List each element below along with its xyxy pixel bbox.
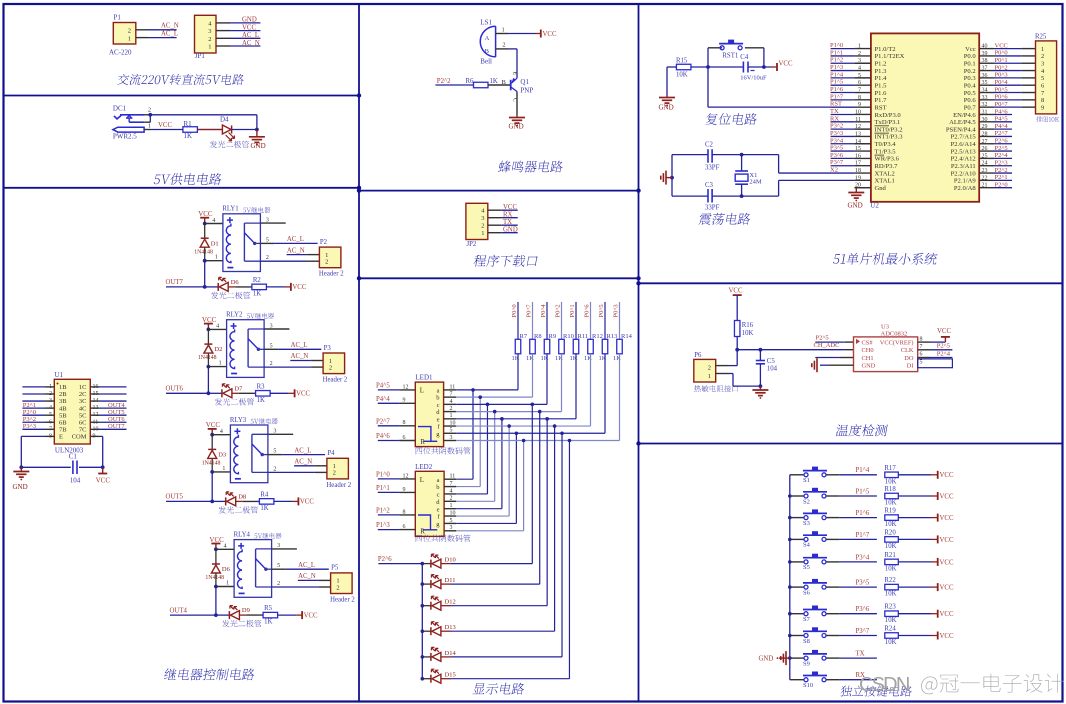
wire U2 pin 37 P0^2 — [979, 64, 1035, 71]
svg-text:S10: S10 — [803, 682, 813, 689]
svg-text:P0^5: P0^5 — [598, 304, 605, 317]
wire P0^5 vertical — [604, 302, 606, 339]
wire JP2 GND — [488, 226, 518, 233]
wire U2 pin 31 P4^6 — [979, 108, 1012, 115]
resistor R16 10K — [734, 321, 753, 337]
node crystal bottom junction — [740, 194, 744, 198]
relay RLY3 5V — [220, 417, 278, 483]
pushbutton S1 — [790, 467, 827, 485]
svg-text:9: 9 — [403, 487, 406, 493]
svg-text:P0^5: P0^5 — [995, 86, 1008, 93]
wire AC_N to P5 pin 1 — [298, 573, 331, 580]
svg-text:P1^6: P1^6 — [856, 510, 870, 517]
svg-text:AC_N: AC_N — [287, 247, 305, 254]
wire LED1 to LED2 segment 5 — [456, 419, 502, 509]
svg-text:OUT4: OUT4 — [170, 607, 188, 614]
svg-text:R17: R17 — [884, 465, 896, 472]
svg-text:10K: 10K — [885, 565, 897, 572]
svg-text:GND: GND — [659, 104, 674, 112]
svg-text:GND: GND — [848, 202, 863, 210]
svg-text:31: 31 — [982, 109, 988, 115]
wire LED2 pin 4 stub — [444, 488, 456, 494]
wire U2 pin 17 — [830, 159, 871, 167]
svg-text:104: 104 — [767, 365, 778, 372]
svg-text:3: 3 — [208, 28, 211, 35]
wire R22 to VCC — [898, 583, 954, 591]
resistor R9 1K — [541, 333, 557, 362]
watermark CSDN — [859, 674, 1064, 697]
svg-text:AC_L: AC_L — [298, 562, 315, 569]
svg-text:R8: R8 — [534, 333, 542, 340]
node label P2^6 — [378, 556, 422, 564]
resistor R6 1K — [466, 78, 498, 88]
svg-text:P2^2: P2^2 — [437, 78, 451, 85]
wire U2 pin 22 P2^1 — [979, 174, 1012, 181]
svg-text:3: 3 — [450, 525, 453, 531]
wire LED2 pin 2 stub — [444, 496, 456, 502]
svg-text:4B: 4B — [59, 405, 67, 412]
wire RLY1 pin 3 stub — [260, 222, 285, 224]
svg-text:PSEN/P4.4: PSEN/P4.4 — [946, 126, 977, 133]
node bus junction S5 — [788, 560, 792, 564]
wire D10 riser — [451, 404, 532, 563]
LED D15 — [422, 669, 455, 683]
svg-text:5: 5 — [1041, 75, 1044, 82]
svg-text:S5: S5 — [803, 564, 810, 571]
title reset — [705, 113, 758, 125]
svg-text:P4^4: P4^4 — [376, 396, 390, 403]
svg-text:P0^6: P0^6 — [583, 304, 590, 318]
svg-text:1: 1 — [481, 230, 484, 237]
svg-text:2: 2 — [325, 259, 328, 266]
resistor R22 10K — [884, 577, 898, 598]
wire LED1 to LED2 segment 7 — [456, 433, 516, 523]
connector P3 Header 2 — [323, 345, 348, 384]
svg-text:4: 4 — [224, 544, 227, 550]
svg-text:P2^6: P2^6 — [995, 138, 1009, 145]
resistor R1 1K — [183, 120, 198, 140]
wire U2 pin 13 — [830, 130, 871, 138]
svg-text:P3^2: P3^2 — [23, 416, 36, 423]
svg-text:P1.2: P1.2 — [875, 61, 887, 68]
svg-text:10K: 10K — [885, 543, 897, 550]
svg-text:P2^2: P2^2 — [995, 167, 1008, 174]
wire R12 to LED1 row 6 — [456, 354, 590, 426]
wire LED2 pin 7 stub — [444, 481, 456, 487]
wire JP2 VCC — [488, 204, 518, 211]
svg-text:2: 2 — [1041, 53, 1044, 60]
svg-text:P3^3: P3^3 — [23, 423, 36, 430]
wire LED2 pin 3 stub — [444, 525, 456, 531]
pushbutton S9 — [790, 650, 827, 668]
power symbol VCC (U1) — [96, 467, 111, 484]
node bus junction D12 — [421, 604, 425, 608]
node label P2^2 — [435, 78, 473, 85]
wire U2 pin 10 — [830, 108, 871, 116]
power symbol VCC (RLY1) — [198, 210, 213, 224]
svg-text:P2^1: P2^1 — [995, 174, 1008, 181]
node osc gnd junction — [670, 176, 674, 180]
svg-text:P1^7: P1^7 — [830, 93, 844, 100]
svg-text:CH1: CH1 — [862, 355, 874, 362]
diode D6 1N4148 — [205, 549, 230, 586]
wire R11 to LED1 row 5 — [456, 354, 576, 419]
ground symbol GND (temp) — [752, 386, 768, 399]
svg-text:OUT5: OUT5 — [108, 409, 125, 416]
svg-text:10K: 10K — [885, 500, 897, 507]
svg-text:P0.4: P0.4 — [964, 83, 977, 90]
pushbutton S8 — [790, 627, 827, 645]
svg-text:5: 5 — [277, 563, 280, 569]
node junction row 6 — [507, 424, 511, 428]
wire JP1 AC_L — [216, 32, 260, 39]
svg-text:P0.6: P0.6 — [964, 97, 977, 104]
svg-text:VCC(VREF): VCC(VREF) — [880, 339, 914, 346]
node bus junction D14 — [421, 655, 425, 659]
svg-text:1K: 1K — [184, 132, 193, 140]
svg-text:2: 2 — [450, 496, 453, 502]
svg-text:3B: 3B — [59, 398, 67, 405]
svg-text:b: b — [436, 395, 439, 402]
wire R3 to VCC — [270, 389, 310, 397]
node junction row 1 — [471, 388, 475, 392]
wire LED2 pin 11 stub — [444, 474, 456, 480]
node bus junction D15 — [421, 677, 425, 681]
node C4-RST1 junction — [762, 65, 766, 69]
svg-text:T1/P3.5: T1/P3.5 — [875, 148, 897, 155]
svg-text:40: 40 — [982, 44, 988, 50]
svg-text:VCC: VCC — [940, 585, 954, 592]
svg-text:Vcc: Vcc — [965, 46, 976, 53]
svg-text:R14: R14 — [621, 333, 633, 340]
svg-text:VCC: VCC — [729, 288, 743, 295]
svg-text:3: 3 — [450, 435, 453, 441]
node junction row 2 — [478, 395, 482, 399]
svg-text:VCC: VCC — [937, 328, 951, 335]
svg-text:VCC: VCC — [940, 611, 954, 618]
wire DC1 top to LED cathode rail — [150, 115, 257, 130]
svg-text:U2: U2 — [870, 202, 879, 210]
wire U2 pin 6 — [830, 79, 871, 87]
svg-text:DI: DI — [907, 363, 914, 370]
diode D1 1N4148 — [194, 224, 218, 261]
svg-text:Header 2: Header 2 — [319, 271, 344, 278]
wire RLY4 pin 3 stub — [272, 548, 297, 550]
svg-text:24M: 24M — [749, 178, 762, 185]
wire RLY2 pin 3 stub — [264, 328, 289, 330]
wire LED1 pin 7 stub — [444, 392, 457, 398]
wire U1 pin 13 — [90, 407, 126, 409]
resistor R10 1K — [555, 333, 574, 362]
wire D11 riser — [451, 412, 540, 585]
svg-text:5: 5 — [858, 73, 861, 79]
svg-text:6C: 6C — [79, 419, 87, 426]
svg-text:2B: 2B — [59, 391, 67, 398]
resistor R12 1K — [584, 333, 603, 362]
node junction row 5 — [500, 417, 504, 421]
svg-text:PNP: PNP — [520, 86, 533, 94]
wire U3 pin8 to VCC — [918, 328, 952, 342]
wire U2 pin 4 — [830, 64, 871, 72]
svg-text:LED1: LED1 — [415, 374, 433, 382]
resistor R15 10K — [676, 57, 691, 78]
svg-text:D7: D7 — [234, 385, 243, 392]
connector P2 Header 2 — [319, 239, 344, 278]
svg-text:17: 17 — [855, 161, 861, 167]
wire R13 to LED1 row 7 — [456, 354, 605, 433]
svg-text:2: 2 — [266, 255, 269, 261]
svg-text:P1^4: P1^4 — [856, 467, 870, 474]
LED D13 — [422, 622, 455, 636]
svg-text:P0^4: P0^4 — [995, 79, 1009, 86]
wire U2 pin 9 — [830, 101, 871, 109]
svg-text:1K: 1K — [264, 619, 272, 626]
svg-text:4: 4 — [858, 66, 861, 72]
svg-text:10K: 10K — [676, 72, 688, 79]
svg-text:11: 11 — [855, 117, 861, 123]
svg-text:P2^7: P2^7 — [995, 130, 1009, 137]
svg-text:P1^3: P1^3 — [376, 522, 390, 529]
node bus junction S9 — [788, 656, 792, 660]
wire VCC to RLY3 pin 4 — [212, 434, 230, 436]
svg-text:R24: R24 — [884, 626, 896, 633]
svg-text:1K: 1K — [257, 397, 265, 404]
svg-text:JP1: JP1 — [195, 52, 206, 60]
svg-text:Header 2: Header 2 — [323, 377, 348, 384]
wire junction to LED D7 — [208, 392, 222, 394]
wire RLY1 pin 1 — [205, 260, 223, 262]
wire OUT4 net — [170, 587, 216, 616]
svg-text:P0^3: P0^3 — [612, 304, 619, 317]
node C5 top junction — [759, 348, 763, 352]
svg-text:32: 32 — [982, 102, 988, 108]
resistor R21 10K — [884, 552, 898, 573]
wire U1 E pin to GND — [21, 436, 54, 467]
svg-text:19: 19 — [855, 175, 861, 181]
svg-text:P6: P6 — [694, 352, 702, 359]
wire OUT7 net — [166, 261, 205, 287]
svg-text:6: 6 — [403, 524, 406, 530]
svg-text:GND: GND — [509, 123, 524, 131]
svg-text:30: 30 — [982, 117, 988, 123]
wire U2 pin 25 P2^4 — [979, 152, 1012, 159]
wire R6 to Q1 base — [488, 84, 511, 86]
svg-text:e: e — [437, 506, 440, 513]
node D15 junction on row 8 — [568, 439, 572, 443]
svg-text:VCC: VCC — [202, 316, 217, 324]
wire R15 to GND — [667, 67, 676, 95]
svg-text:U1: U1 — [55, 371, 64, 379]
svg-text:1: 1 — [226, 581, 229, 587]
svg-text:P1^1: P1^1 — [830, 49, 843, 56]
title 5V supply — [153, 173, 222, 185]
svg-text:OUT7: OUT7 — [108, 423, 125, 430]
pushbutton S10 — [790, 672, 827, 690]
svg-text:10: 10 — [855, 109, 861, 115]
IC U1 ULN2003 — [49, 371, 99, 455]
connector JP2 — [466, 203, 488, 248]
wire S10 to net RX — [826, 672, 877, 680]
wire LED1 pin 2 stub — [444, 406, 457, 412]
svg-text:12: 12 — [855, 124, 861, 130]
svg-text:1: 1 — [450, 413, 453, 419]
svg-text:39: 39 — [982, 51, 988, 57]
svg-text:P4^4: P4^4 — [995, 123, 1009, 130]
node D12 junction on row 5 — [545, 417, 549, 421]
svg-text:P3^6: P3^6 — [830, 152, 844, 159]
svg-text:S6: S6 — [803, 589, 811, 596]
wire RLY3 pin 1 — [212, 471, 230, 473]
svg-text:5C: 5C — [79, 412, 87, 419]
node bus junction S2 — [788, 494, 792, 498]
wire LED2 pin 10 stub — [444, 510, 456, 516]
svg-text:R16: R16 — [742, 322, 754, 329]
svg-text:P4^5: P4^5 — [376, 383, 390, 390]
svg-text:VCC: VCC — [940, 515, 954, 522]
wire AC_N to P3 pin 1 — [290, 353, 323, 360]
svg-text:P3^5: P3^5 — [856, 580, 870, 587]
title independent keys — [840, 686, 913, 697]
wire P6 pin2 to node — [716, 350, 738, 366]
svg-text:10K: 10K — [885, 478, 897, 485]
svg-text:VCC: VCC — [940, 559, 954, 566]
svg-text:Bell: Bell — [480, 58, 492, 66]
svg-text:8: 8 — [1041, 97, 1044, 104]
svg-text:D12: D12 — [445, 599, 456, 606]
wire XTAL1 — [779, 180, 855, 196]
svg-text:S8: S8 — [803, 638, 810, 645]
svg-text:R20: R20 — [884, 529, 896, 536]
wire LED1 to LED2 segment 1 — [456, 390, 473, 479]
resistor R23 10K — [884, 604, 898, 625]
wire U1 pin 7 — [22, 428, 54, 430]
svg-text:Header 2: Header 2 — [330, 596, 355, 603]
svg-text:1: 1 — [450, 503, 453, 509]
wire U2 pin 8 — [830, 93, 871, 101]
svg-text:P0.3: P0.3 — [964, 75, 977, 82]
svg-text:L: L — [420, 387, 424, 395]
wire U2 pin 26 P2^5 — [979, 145, 1012, 152]
svg-text:GND: GND — [862, 363, 876, 370]
svg-text:RxD/P3.0: RxD/P3.0 — [875, 112, 902, 119]
wire JP2 TX — [488, 219, 518, 226]
svg-text:RLY4: RLY4 — [234, 531, 251, 538]
svg-text:R22: R22 — [884, 577, 896, 584]
svg-text:5: 5 — [450, 518, 453, 524]
svg-text:R5: R5 — [264, 605, 273, 612]
wire P0^1 vertical — [575, 302, 577, 339]
svg-text:P2.0/A8: P2.0/A8 — [954, 185, 977, 192]
LED D14 — [422, 647, 456, 661]
wire U2 Gnd pin — [848, 188, 880, 210]
resistor network R25 (10K) — [1035, 34, 1059, 122]
ground symbol (osc, sideways) — [661, 171, 672, 185]
node CH_ADC junction — [735, 348, 739, 352]
svg-text:10K: 10K — [742, 330, 754, 337]
svg-text:VCC: VCC — [543, 31, 557, 38]
wire LED1 to LED2 segment 6 — [456, 426, 509, 516]
svg-text:P2.2/A10: P2.2/A10 — [951, 170, 977, 177]
wire U1 pin 14 — [90, 400, 126, 402]
svg-text:4C: 4C — [79, 405, 87, 412]
node junction row 3 — [486, 403, 490, 407]
ground symbol GND (U1) — [13, 467, 30, 491]
svg-text:INT0/P3.2: INT0/P3.2 — [875, 126, 903, 133]
svg-text:P1^0: P1^0 — [376, 472, 390, 479]
svg-text:22: 22 — [982, 175, 988, 181]
wire U2 pin 24 P2^3 — [979, 160, 1012, 167]
wire S5 to net P3^4 — [826, 554, 877, 562]
svg-text:CS#: CS# — [862, 339, 874, 346]
node bus junction S4 — [788, 538, 792, 542]
resistor R19 10K — [884, 508, 898, 529]
node U1 gnd junction — [19, 465, 23, 469]
svg-text:P1: P1 — [114, 14, 122, 22]
wire LED2 pin 1 stub — [444, 503, 456, 509]
svg-text:9: 9 — [403, 398, 406, 404]
resistor R7 1K — [512, 333, 528, 362]
capacitor C5 104 — [756, 350, 778, 386]
wire U2 pin 34 P0^5 — [979, 86, 1035, 93]
wire RST net to U2 — [708, 67, 854, 107]
wire AC_N to P2 pin 1 — [287, 247, 320, 254]
wire R20 to VCC — [898, 535, 954, 543]
svg-text:33PF: 33PF — [705, 165, 720, 172]
svg-text:P2.6/A14: P2.6/A14 — [951, 141, 977, 148]
svg-text:P2^0: P2^0 — [23, 409, 36, 416]
connector P1 (AC-220) — [109, 14, 136, 57]
svg-text:3: 3 — [1041, 61, 1044, 68]
wire LED2 left pin 8 P1^2 — [376, 508, 415, 516]
svg-text:INT1/P3.3: INT1/P3.3 — [875, 134, 904, 141]
wire OUT5 net — [166, 472, 213, 502]
svg-text:2: 2 — [270, 361, 273, 367]
svg-text:P5: P5 — [331, 565, 339, 572]
svg-text:P2.4/A12: P2.4/A12 — [951, 156, 976, 163]
svg-text:P0^2: P0^2 — [554, 304, 561, 317]
svg-text:1N4148: 1N4148 — [198, 355, 217, 361]
title program download port — [473, 255, 538, 267]
svg-text:E: E — [512, 72, 518, 76]
node RLY4 pin4 junction — [214, 547, 218, 551]
LED D6 — [211, 277, 250, 299]
wire P0^6 vertical — [590, 302, 592, 339]
transistor Q1 PNP — [502, 72, 534, 103]
svg-text:37: 37 — [982, 66, 988, 72]
wire U2 pin 38 P0^1 — [979, 57, 1035, 64]
svg-text:P1.7: P1.7 — [875, 97, 888, 104]
svg-text:2: 2 — [208, 36, 211, 43]
wire U2 pin 14 — [830, 137, 871, 145]
svg-text:CH_ADC: CH_ADC — [814, 342, 840, 349]
wire junction to LED D6 — [205, 286, 219, 288]
svg-text:15: 15 — [855, 146, 861, 152]
svg-text:R: R — [420, 438, 425, 446]
power symbol VCC (RLY4) — [209, 536, 224, 550]
wire D9 to R5 — [239, 614, 263, 616]
svg-text:A: A — [485, 35, 490, 42]
title buzzer — [498, 161, 564, 173]
svg-text:VCC: VCC — [940, 472, 954, 479]
svg-text:P1.5: P1.5 — [875, 83, 888, 90]
svg-text:c: c — [437, 402, 440, 409]
wire LED1 pin 10 stub — [444, 420, 457, 426]
node RLY1 pin1 junction — [203, 259, 207, 263]
wire R9 to LED1 row 3 — [456, 354, 547, 405]
wire RLY2 pin 1 — [208, 366, 226, 368]
wire P1 pin1 AC_L — [136, 30, 178, 37]
svg-text:TX: TX — [856, 651, 865, 658]
